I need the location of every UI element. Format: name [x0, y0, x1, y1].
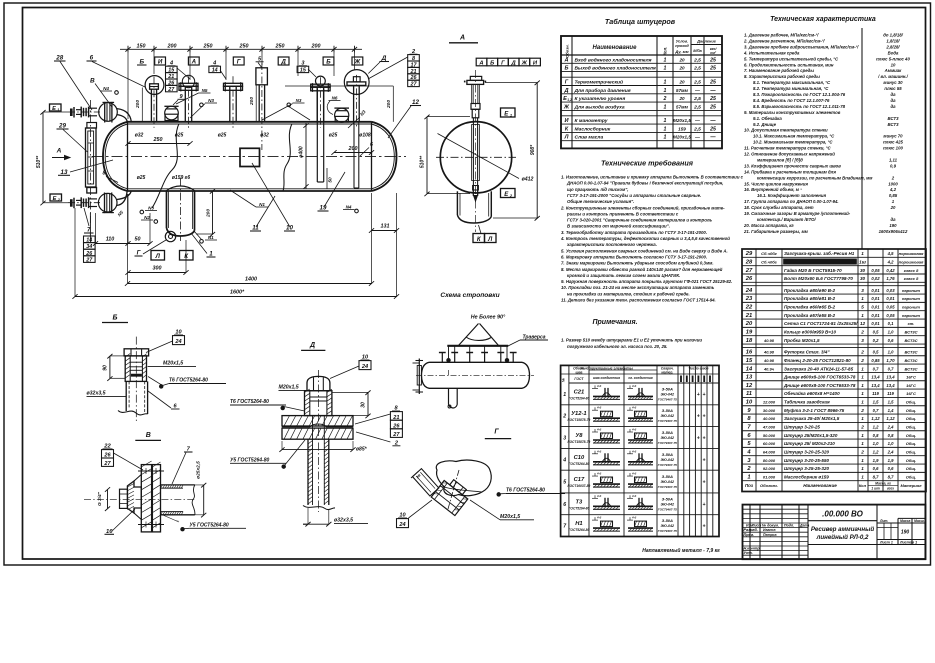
svg-text:ЭЮ-042: ЭЮ-042: [661, 480, 675, 484]
svg-text:Прокладка ø80/ø90 В-2: Прокладка ø80/ø90 В-2: [784, 288, 836, 293]
svg-text:М20х1,5: М20х1,5: [500, 514, 520, 520]
svg-text:Маслосборник ø159: Маслосборник ø159: [784, 474, 829, 480]
svg-text:да: да: [890, 104, 896, 109]
svg-text:М20х1,5: М20х1,5: [673, 135, 691, 140]
valve Н6 on shell (x339): [334, 108, 349, 122]
svg-text:Не Более 90°: Не Более 90°: [471, 315, 506, 321]
svg-text:20: 20: [678, 96, 685, 101]
svg-text:ГОСТ16037-80: ГОСТ16037-80: [568, 484, 591, 488]
svg-text:1: 1: [861, 433, 864, 438]
svg-text:Б: Б: [139, 59, 144, 66]
svg-text:+: +: [703, 502, 706, 508]
svg-text:порошковая: порошковая: [899, 251, 924, 256]
svg-text:№ докум.: № докум.: [761, 524, 779, 528]
svg-text:Аммиак: Аммиак: [884, 68, 902, 73]
svg-text:14: 14: [212, 68, 218, 74]
svg-text:Слив масла: Слив масла: [575, 135, 604, 141]
svg-text:N4: N4: [346, 205, 352, 210]
marker row А Б Г Д Ж И: [476, 58, 540, 66]
svg-text:200: 200: [311, 43, 321, 49]
svg-text:З-50А: З-50А: [662, 496, 673, 501]
svg-text:28: 28: [55, 55, 63, 62]
svg-text:4-б: 4-б: [631, 516, 636, 520]
svg-text:2. Давление расчетное, МПа/кгс: 2. Давление расчетное, МПа/кгс/см-²/: [743, 38, 825, 43]
svg-text:ГОСТ15878-79: ГОСТ15878-79: [568, 440, 591, 444]
svg-text:Фланец 2-20-25 ГОСТ12821-80: Фланец 2-20-25 ГОСТ12821-80: [784, 358, 851, 363]
svg-text:0,6: 0,6: [888, 466, 894, 471]
svg-text:1: 1: [861, 466, 864, 471]
svg-text:4-б: 4-б: [596, 516, 601, 520]
svg-text:N2: N2: [144, 215, 150, 220]
svg-text:14. Прибавка к расчетным толщи: 14. Прибавка к расчетным толщинам для: [744, 169, 836, 174]
svg-text:4-б: 4-б: [596, 494, 601, 498]
svg-text:+: +: [697, 414, 700, 420]
svg-text:Маслосборник: Маслосборник: [575, 125, 611, 132]
svg-text:ø25: ø25: [175, 133, 184, 139]
marker box Е1 (main view): [50, 104, 62, 112]
svg-text:9.2. Днище: 9.2. Днище: [753, 122, 777, 127]
dim 250 under nozzle И-А: [125, 137, 192, 146]
svg-text:+: +: [703, 392, 706, 398]
svg-text:11. Детали без указания техн.: 11. Детали без указания техн. расположен…: [561, 298, 716, 303]
right dished head (днище поз.12): [372, 122, 397, 191]
svg-text:Гайка М20 Б ГОСТ5915-70: Гайка М20 Б ГОСТ5915-70: [784, 267, 842, 273]
svg-text:5: 5: [563, 480, 566, 486]
svg-text:1: 1: [861, 391, 864, 396]
svg-text:6: 6: [370, 142, 373, 148]
svg-text:N4: N4: [103, 86, 109, 91]
svg-text:15. Число циклов нагружения: 15. Число циклов нагружения: [744, 181, 808, 186]
svg-text:У5 ГОСТ5264-80: У5 ГОСТ5264-80: [189, 522, 228, 528]
svg-text:8,7: 8,7: [888, 475, 894, 480]
svg-text:1,9: 1,9: [888, 458, 894, 463]
svg-text:1: 1: [664, 118, 667, 124]
detail В title: [135, 432, 161, 440]
svg-text:В: В: [90, 78, 95, 85]
svg-text:плюс 425: плюс 425: [883, 140, 903, 145]
svg-text:0,6: 0,6: [888, 338, 894, 343]
svg-text:материалов [б] / [б]д: материалов [б] / [б]д: [757, 157, 803, 162]
svg-text:1: 1: [209, 251, 213, 258]
svg-text:25: 25: [709, 104, 716, 110]
svg-text:4-б: 4-б: [596, 406, 601, 410]
svg-text:20. Масса аппарата, кг: 20. Масса аппарата, кг: [743, 223, 794, 228]
svg-text:1000: 1000: [888, 181, 898, 186]
leader Н4 top: [100, 86, 118, 94]
svg-text:6. Продолжительность испытания: 6. Продолжительность испытания, мин: [744, 62, 834, 67]
svg-text:16. Внутренний объем, м ³: 16. Внутренний объем, м ³: [744, 187, 802, 192]
svg-text:3: 3: [861, 288, 864, 293]
svg-text:19: 19: [746, 330, 753, 336]
svg-text:24: 24: [174, 339, 182, 345]
svg-text:Д: Д: [280, 59, 286, 66]
svg-text:ДНАОП 0.00-1.07-94 "Правила бу: ДНАОП 0.00-1.07-94 "Правила будовы і без…: [566, 181, 724, 186]
svg-text:ЭЮ-042: ЭЮ-042: [661, 524, 675, 528]
svg-text:2: 2: [860, 450, 864, 455]
svg-text:паронит: паронит: [902, 288, 920, 293]
svg-text:+: +: [703, 414, 706, 420]
svg-text:всех: всех: [887, 486, 894, 490]
svg-text:Листов 1: Листов 1: [899, 540, 917, 544]
tech requirements text: [560, 175, 744, 303]
svg-text:А: А: [478, 60, 483, 66]
svg-text:МПа: МПа: [693, 48, 702, 53]
svg-text:30: 30: [860, 268, 866, 273]
sling scheme title: [440, 292, 499, 299]
detail Д stud pipe below: [303, 416, 335, 510]
svg-text:0,7: 0,7: [873, 366, 879, 371]
svg-text:Утв.: Утв.: [744, 551, 753, 555]
svg-text:50: 50: [135, 237, 141, 243]
svg-text:ГОСТ15878-79: ГОСТ15878-79: [568, 418, 591, 422]
svg-text:М20х1,5: М20х1,5: [279, 385, 299, 391]
svg-text:0,7: 0,7: [888, 366, 894, 371]
svg-text:ЭЮ-042: ЭЮ-042: [661, 436, 675, 440]
sling angle label: [471, 315, 506, 321]
svg-text:ГОСТ9467-75: ГОСТ9467-75: [658, 485, 677, 489]
svg-text:4-б: 4-б: [596, 428, 601, 432]
svg-text:8.3. Пожароопасность по ГОСТ: 8.3. Пожароопасность по ГОСТ 12.1.004-76: [753, 92, 846, 97]
local section break line (wavy, right): [283, 124, 292, 191]
svg-text:Ж: Ж: [521, 60, 528, 66]
svg-text:7: 7: [87, 227, 91, 234]
svg-text:ЭЮ-042: ЭЮ-042: [661, 414, 675, 418]
svg-text:40.98: 40.98: [763, 338, 775, 343]
svg-text:2: 2: [663, 96, 667, 102]
svg-text:Заглушка-крыш. заб.-Ресив Н1: Заглушка-крыш. заб.-Ресив Н1: [784, 250, 855, 256]
svg-text:10.2. Минимальная температура: 10.2. Минимальная температура, °С: [753, 140, 833, 145]
svg-text:1 шт: 1 шт: [871, 486, 879, 490]
svg-text:ø32: ø32: [260, 133, 269, 139]
svg-text:2,5: 2,5: [693, 57, 701, 63]
detail Д title: [301, 342, 325, 350]
svg-text:Днище ø600х8-100 ГОСТ6533-78: Днище ø600х8-100 ГОСТ6533-78: [783, 383, 856, 388]
detail Б dim 90: [103, 354, 126, 381]
svg-text:30: 30: [361, 402, 367, 408]
svg-text:М20х1,5: М20х1,5: [163, 361, 183, 367]
detail Б pipe below: [118, 381, 148, 415]
svg-text:Т6 ГОСТ5264-80: Т6 ГОСТ5264-80: [506, 488, 545, 494]
svg-text:погружного кабельного эл. насо: погружного кабельного эл. насоса поз. 20…: [567, 344, 668, 349]
svg-text:0,01: 0,01: [871, 313, 880, 318]
svg-text:1,70: 1,70: [886, 358, 895, 363]
svg-text:Прокладка ø60/ø65 В-2: Прокладка ø60/ø65 В-2: [784, 305, 836, 310]
svg-text:12: 12: [746, 383, 753, 389]
svg-text:16: 16: [746, 350, 753, 356]
svg-text:50: 50: [328, 177, 334, 183]
svg-text:N1: N1: [259, 202, 265, 207]
svg-text:8,7: 8,7: [873, 475, 879, 480]
svg-text:ø32х3,5: ø32х3,5: [87, 391, 106, 397]
svg-text:+: +: [703, 436, 706, 442]
deposited metal note: [642, 547, 720, 554]
svg-text:З-50А: З-50А: [662, 518, 673, 523]
svg-text:Иванов: Иванов: [763, 528, 776, 532]
svg-text:1: 1: [747, 475, 750, 481]
svg-text:4-б: 4-б: [596, 472, 601, 476]
svg-text:Кольцо ø300/ø959 В=10: Кольцо ø300/ø959 В=10: [784, 330, 836, 335]
svg-text:ВСТ3С: ВСТ3С: [904, 358, 917, 363]
svg-text:Термометрический: Термометрический: [575, 78, 624, 85]
svg-text:25: 25: [709, 57, 716, 63]
svg-text:2: 2: [860, 408, 864, 413]
svg-text:Общ.: Общ.: [906, 450, 916, 455]
svg-text:13. Коэффициент прочности свар: 13. Коэффициент прочности сварных швов: [744, 163, 841, 168]
svg-text:10: 10: [891, 62, 896, 67]
svg-text:1600х906х412: 1600х906х412: [879, 229, 908, 234]
svg-text:1,0: 1,0: [888, 330, 894, 335]
svg-text:ø25: ø25: [137, 175, 146, 181]
svg-text:ГОСТ9467-75: ГОСТ9467-75: [658, 507, 677, 511]
dim ф32 ф25 ф25 ф32 ф25 ф108 on nozzles: [135, 133, 371, 182]
svg-text:Общ.: Общ.: [906, 466, 916, 471]
svg-text:Заглушка 25-40/ М20х1,5: Заглушка 25-40/ М20х1,5: [784, 416, 840, 421]
svg-text:Общие технические условия".: Общие технические условия".: [567, 199, 634, 204]
svg-text:1: 1: [664, 66, 667, 72]
marker box Е2 (main view): [50, 194, 62, 202]
svg-text:ГОСТ5264-80: ГОСТ5264-80: [568, 462, 589, 466]
svg-text:200: 200: [167, 43, 177, 49]
detail mark Б (bottom): [102, 315, 128, 323]
svg-text:13: 13: [746, 375, 753, 381]
svg-text:0,05: 0,05: [871, 268, 880, 273]
svg-text:Сб.ч0бг: Сб.ч0бг: [761, 259, 778, 264]
svg-text:200: 200: [135, 100, 141, 109]
svg-text:матер.: матер.: [661, 370, 673, 374]
section A title: [449, 35, 478, 43]
svg-text:Сетка С1 ГОСТ1724-81 /2х25х25/: Сетка С1 ГОСТ1724-81 /2х25х25/: [784, 321, 858, 326]
svg-text:1,2: 1,2: [567, 98, 572, 102]
svg-text:4-б: 4-б: [631, 494, 636, 498]
svg-text:190: 190: [901, 530, 910, 536]
svg-text:N5: N5: [202, 88, 208, 93]
vertical dim 200 (right nozzle): [285, 86, 393, 122]
svg-text:5. Температура испытательной с: 5. Температура испытательной среды, °С: [744, 56, 839, 61]
svg-text:7. Знаки маркировки Выполнять: 7. Знаки маркировки Выполнять ударным сп…: [561, 261, 714, 266]
sump in section A: [457, 191, 491, 223]
svg-text:11: 11: [252, 225, 259, 232]
svg-text:до 1,8/18/: до 1,8/18/: [883, 33, 903, 38]
svg-text:Заглушка 20-40 АТК24-11-57-85: Заглушка 20-40 АТК24-11-57-85: [784, 366, 854, 371]
svg-text:1: 1: [861, 458, 864, 463]
svg-text:2. Конструкционные элементы сб: 2. Конструкционные элементы сборных соед…: [560, 205, 725, 210]
svg-text:Техническая характеристика: Техническая характеристика: [770, 16, 876, 23]
svg-text:У8: У8: [575, 433, 583, 439]
diagonal leader ф412: [438, 134, 534, 183]
tech characteristics divider: [861, 28, 863, 249]
svg-text:2: 2: [860, 350, 864, 355]
nozzle А (x188.5) flange: [179, 75, 198, 128]
svg-text:1,9: 1,9: [873, 458, 879, 463]
svg-text:В зависимости от марочной клас: В зависимости от марочной классификации"…: [567, 224, 670, 229]
svg-text:200: 200: [249, 97, 255, 106]
svg-text:Штуцер 3-25-25-320: Штуцер 3-25-25-320: [784, 466, 829, 471]
svg-text:ГОСТ: ГОСТ: [574, 377, 584, 381]
svg-text:3. Термообработку аппарата про: 3. Термообработку аппарата производить п…: [561, 230, 707, 235]
svg-text:Г: Г: [501, 60, 505, 66]
svg-text:1: 1: [563, 392, 566, 398]
svg-text:13,4: 13,4: [886, 383, 895, 388]
svg-text:0,42: 0,42: [886, 268, 895, 273]
svg-text:6: 6: [563, 502, 566, 508]
svg-text:Т3: Т3: [576, 499, 584, 505]
svg-text:Днище ø600х8-100 ГОСТ6533-78: Днище ø600х8-100 ГОСТ6533-78: [783, 375, 856, 380]
svg-text:Табличка заводская: Табличка заводская: [784, 399, 830, 405]
svg-text:2,5: 2,5: [693, 126, 701, 132]
svg-text:Ду, мм: Ду, мм: [674, 49, 688, 54]
svg-text:1: 1: [861, 400, 864, 405]
svg-text:4-б: 4-б: [631, 428, 636, 432]
svg-text:0,01: 0,01: [886, 296, 895, 301]
svg-text:Ж: Ж: [563, 104, 570, 110]
svg-text:класс 8: класс 8: [904, 276, 919, 281]
vertical dim 200 (mid nozzle): [249, 85, 256, 122]
valve 9 on shell (x171): [164, 106, 178, 120]
svg-text:ГОСТ9467-75: ГОСТ9467-75: [658, 419, 677, 423]
svg-text:40.98: 40.98: [763, 350, 775, 355]
svg-text:6. Маркировку аппарата Выполня: 6. Маркировку аппарата Выполнять согласн…: [561, 254, 707, 259]
detail В flange plates: [138, 461, 164, 532]
svg-text:1: 1: [861, 366, 864, 371]
svg-text:1: 1: [861, 251, 864, 256]
section A shell circle ф412: [436, 122, 516, 193]
svg-text:300: 300: [153, 266, 162, 272]
svg-text:А: А: [191, 59, 197, 66]
svg-text:1,2: 1,2: [873, 425, 879, 430]
svg-text:250: 250: [275, 43, 285, 49]
svg-text:Общ.: Общ.: [906, 433, 916, 438]
svg-text:Штуцер 3-20-25: Штуцер 3-20-25: [784, 425, 820, 430]
svg-text:компенсир./ Вариант /ЕТО/: компенсир./ Вариант /ЕТО/: [757, 217, 817, 222]
svg-text:2: 2: [860, 358, 864, 363]
svg-text:Т6 ГОСТ5264-80: Т6 ГОСТ5264-80: [230, 399, 269, 405]
svg-text:1: 1: [664, 79, 667, 85]
svg-text:20: 20: [678, 57, 685, 62]
svg-text:З-50А: З-50А: [662, 386, 673, 391]
svg-text:4,5: 4,5: [887, 251, 894, 256]
svg-text:908*: 908*: [530, 144, 536, 155]
svg-text:Разраб.: Разраб.: [744, 528, 758, 532]
svg-text:ВСТ3С: ВСТ3С: [904, 330, 917, 335]
svg-text:ГСТУ 3-020-2001 "Сварочные сое: ГСТУ 3-020-2001 "Сварочные соединения ма…: [567, 218, 713, 223]
svg-text:159: 159: [678, 126, 686, 131]
svg-text:+: +: [703, 524, 706, 530]
svg-text:плюс 100: плюс 100: [883, 146, 903, 151]
svg-text:16ГС: 16ГС: [906, 391, 916, 396]
svg-text:Наименование: Наименование: [803, 483, 837, 488]
svg-text:ГОСТ5264-80: ГОСТ5264-80: [568, 528, 589, 532]
svg-text:Б: Б: [490, 60, 494, 66]
detail Д dim ф32х3,5: [303, 508, 368, 527]
dim 131 right: [369, 193, 399, 297]
svg-text:ø25х2,5: ø25х2,5: [196, 461, 202, 479]
dim 200 sump height: [196, 189, 215, 237]
svg-text:шва: шва: [575, 370, 582, 374]
svg-text:Вода: Вода: [888, 50, 899, 55]
svg-text:0,85: 0,85: [889, 193, 898, 198]
svg-text:1,4: 1,4: [888, 408, 894, 413]
svg-text:Для прибора давления: Для прибора давления: [574, 87, 631, 94]
svg-text:N3: N3: [296, 98, 302, 103]
svg-text:57мм: 57мм: [676, 88, 689, 93]
svg-text:0,01: 0,01: [871, 321, 880, 326]
svg-text:8.2. Температура минимальная,: 8.2. Температура минимальная, °С: [753, 86, 829, 91]
svg-text:1,12: 1,12: [886, 416, 895, 421]
pos stack 2/8/17/21/26/27 top right: [368, 49, 419, 88]
svg-text:ВСТ3С: ВСТ3С: [904, 350, 917, 355]
svg-text:27: 27: [103, 461, 111, 467]
svg-text:250: 250: [239, 43, 249, 49]
marker boxes К Л (section): [473, 225, 496, 243]
svg-text:ГОСТ9467-75: ГОСТ9467-75: [658, 441, 677, 445]
svg-text:10: 10: [746, 400, 753, 406]
svg-text:Примечания.: Примечания.: [592, 319, 637, 326]
svg-text:10. Прокладки поз. 21-24 на м: 10. Прокладки поз. 21-24 на месте эксплу…: [561, 285, 715, 290]
svg-text:Конструктивные элементы: Конструктивные элементы: [580, 367, 633, 371]
svg-text:N1: N1: [208, 235, 214, 240]
svg-text:1: 1: [861, 375, 864, 380]
svg-text:4,2: 4,2: [887, 259, 894, 264]
svg-text:ø159 г6: ø159 г6: [172, 175, 190, 181]
detail Г angled plug: [411, 469, 472, 516]
svg-text:1,0: 1,0: [888, 350, 894, 355]
svg-text:+: +: [697, 436, 700, 442]
svg-text:ст.: ст.: [908, 321, 915, 326]
svg-text:Л: Л: [155, 253, 161, 260]
svg-text:Болт М20х60 Б.6 ГОСТ7798-70: Болт М20х60 Б.6 ГОСТ7798-70: [784, 276, 853, 281]
tech requirements title: [601, 159, 694, 168]
svg-text:200: 200: [205, 209, 211, 218]
svg-text:проход: проход: [675, 44, 689, 48]
svg-text:0,7: 0,7: [873, 408, 879, 413]
svg-text:20: 20: [890, 205, 896, 210]
svg-text:2: 2: [860, 425, 864, 430]
svg-text:ВСТ3: ВСТ3: [888, 116, 900, 121]
svg-text:З-50А: З-50А: [662, 452, 673, 457]
left dished head (днище поз.13): [103, 122, 128, 191]
svg-text:12.000: 12.000: [763, 400, 776, 405]
svg-text:1: 1: [664, 104, 667, 110]
svg-text:11: 11: [746, 391, 752, 397]
svg-text:40.98: 40.98: [763, 358, 775, 363]
tech characteristics title: [770, 16, 876, 23]
svg-text:8. Места маркировки обвести ра: 8. Места маркировки обвести рамкой 140х1…: [561, 267, 723, 272]
nozzle И (x154) with handwheel circle: [145, 76, 164, 128]
svg-text:0,9: 0,9: [890, 163, 897, 168]
svg-text:Общ.: Общ.: [906, 458, 916, 463]
title block: [743, 505, 926, 560]
svg-text:22: 22: [745, 305, 753, 311]
svg-text:2,4: 2,4: [887, 425, 894, 430]
svg-text:Е: Е: [53, 196, 57, 202]
svg-text:27: 27: [392, 432, 400, 438]
svg-text:0,01: 0,01: [871, 296, 880, 301]
nozzle Б (x320) with internal dip pipe: [311, 76, 330, 182]
svg-text:N6: N6: [332, 96, 338, 101]
svg-text:131: 131: [381, 224, 390, 230]
svg-text:Общ.: Общ.: [906, 408, 916, 413]
svg-text:2,4: 2,4: [887, 450, 894, 455]
svg-text:Общ.: Общ.: [906, 441, 916, 446]
svg-text:0,1: 0,1: [888, 321, 894, 326]
svg-text:2,5: 2,5: [693, 66, 701, 72]
svg-text:+: +: [703, 457, 706, 463]
svg-text:ГОСТ9467-75: ГОСТ9467-75: [658, 463, 677, 467]
svg-text:N3: N3: [208, 98, 214, 103]
svg-text:Пров.: Пров.: [744, 533, 755, 537]
svg-text:21. Габаритные размеры, мм: 21. Габаритные размеры, мм: [743, 229, 809, 234]
svg-text:1,76: 1,76: [886, 276, 895, 281]
